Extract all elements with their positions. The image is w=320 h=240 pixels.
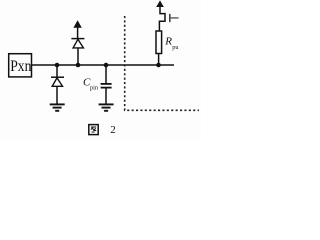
wire resistor to pin wire bbox=[158, 54, 160, 66]
svg-text:pin: pin bbox=[90, 85, 98, 92]
pull-up resistor Rpu bbox=[156, 31, 162, 54]
upper clamp diode D2 bbox=[71, 27, 84, 65]
svg-text:pu: pu bbox=[172, 44, 178, 51]
node at capacitor bbox=[104, 63, 109, 68]
capacitor Cpin bbox=[101, 65, 112, 104]
ground under capacitor bbox=[99, 104, 114, 110]
pin wire bbox=[32, 64, 174, 66]
gate bar bbox=[169, 14, 171, 22]
svg-text:R: R bbox=[164, 35, 172, 47]
VCC arrow above upper diode bbox=[73, 20, 81, 27]
node at upper diode bbox=[76, 63, 81, 68]
chip boundary dashed line bbox=[125, 16, 199, 110]
VCC arrow top right bbox=[156, 0, 164, 7]
node at lower diode bbox=[55, 63, 60, 68]
lower clamp diode D1 bbox=[51, 65, 64, 104]
node at pull-up bbox=[156, 63, 161, 68]
pull-up switch (PMOS) channel jog bbox=[159, 7, 165, 32]
Pxn box bbox=[9, 54, 32, 77]
svg-text:Pxn: Pxn bbox=[10, 58, 31, 75]
gate lead bbox=[171, 17, 179, 19]
caption glyph 图 (drawn) bbox=[89, 125, 98, 135]
ground under D1 bbox=[50, 104, 65, 110]
svg-text:2: 2 bbox=[110, 124, 116, 136]
